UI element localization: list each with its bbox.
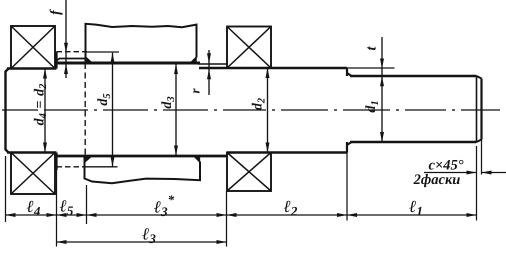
shaft d2 journal bottom edge	[227, 151, 347, 154]
extension line at left end	[5, 156, 7, 222]
bearing left upper square with cross	[11, 26, 55, 69]
gear hub upper outline (wavy break line on top)	[86, 24, 197, 63]
bearing right upper square with cross	[227, 27, 271, 69]
svg-text:2фаски: 2фаски	[413, 172, 461, 188]
shaft d1 bottom edge with chamfers	[347, 142, 352, 145]
collar top edge with chamfer	[57, 59, 86, 61]
shaft end face	[480, 79, 482, 140]
leader line for chamfer note	[424, 172, 477, 174]
dimension d1 and t shared line	[381, 37, 383, 142]
hidden hub bore edge (dashed vertical)	[84, 63, 86, 155]
dimension r line	[208, 50, 210, 95]
dimension l4 arrows	[6, 213, 16, 217]
chamfer edge line at shaft end	[476, 76, 478, 142]
extension line at collar face	[56, 170, 58, 247]
dimension l5 arrows	[57, 213, 67, 217]
extension line at chamfer line right end	[476, 146, 478, 221]
shoulder step d2 to d1	[346, 68, 348, 76]
gear hub lower left bore chamfer	[85, 156, 91, 162]
hidden hub chamfer line top (dashed)	[57, 51, 88, 53]
dimension l3* arrows	[87, 213, 97, 217]
collar left face at step	[55, 52, 57, 69]
gear hub upper left bore chamfer	[86, 58, 92, 64]
shaft d1 top edge with chamfers	[347, 73, 352, 76]
extension of d3 level past hub	[198, 63, 228, 65]
extension line for t	[347, 67, 395, 69]
dimension l1 arrows	[347, 213, 357, 217]
extension line at shoulder x347	[346, 153, 348, 221]
hidden hub chamfer line bottom (dashed)	[57, 166, 88, 168]
dimension l3 line	[57, 241, 227, 243]
dimension d4=d2 line	[44, 69, 46, 153]
extension line at hub left edge	[86, 185, 88, 224]
dimension l2 arrows	[227, 213, 237, 217]
bearing left lower square with cross	[11, 153, 55, 195]
shaft d2 journal top edge	[199, 67, 347, 70]
shaft d4 journal top edge	[7, 67, 57, 70]
dimension row l4 l5 l3* l2 l1 line	[6, 214, 477, 216]
gear seat d3 top surface (thick)	[57, 62, 201, 65]
shaft left end face with chamfers	[6, 69, 9, 153]
dimension d3 line	[175, 64, 177, 156]
dimension arrow from right edge	[482, 172, 506, 174]
gear seat d3 bottom surface (thick)	[57, 155, 228, 158]
dimension d5 line	[112, 53, 114, 167]
dimension f line	[65, 0, 67, 78]
wire centerline (dash-dot axis)	[2, 109, 500, 111]
svg-text:d4 = d2: d4 = d2	[33, 83, 50, 126]
bearing right lower square with cross	[227, 153, 271, 192]
extension line for d5 top	[86, 51, 119, 53]
extension line at bearing inner edge right	[226, 191, 228, 247]
shaft d4 journal bottom edge	[7, 151, 57, 154]
gear hub upper right bore chamfer	[191, 58, 197, 64]
dimension d2 line	[267, 68, 269, 153]
extension line for d5 bottom	[87, 166, 118, 168]
gear hub lower outline (wavy break line below)	[85, 156, 201, 183]
gear hub lower right bore chamfer	[194, 156, 199, 162]
